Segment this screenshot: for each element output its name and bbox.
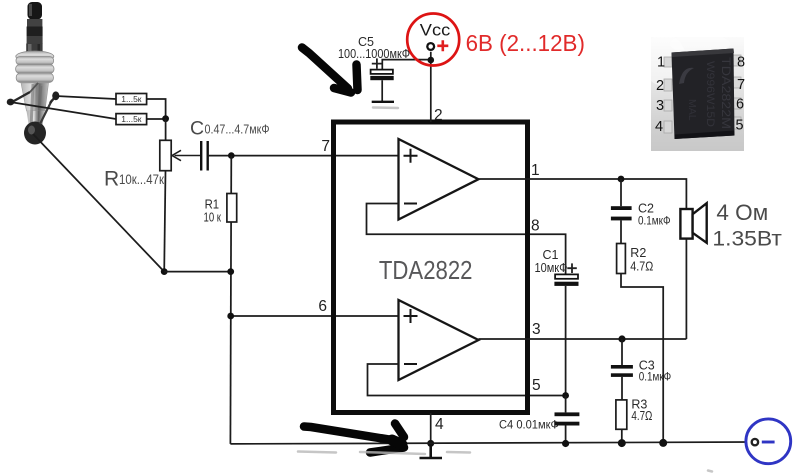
IC chip photo (DIP-8) [642,34,745,151]
ground rail [230,442,751,444]
svg-text:5: 5 [532,377,541,394]
left lug contact [13,92,30,102]
speaker [680,203,706,243]
right lug contact [50,97,56,104]
jack plug photo [7,2,60,145]
svg-text:8: 8 [737,55,745,71]
ST logo [679,68,694,84]
svg-text:4: 4 [435,416,444,433]
svg-text:1: 1 [657,55,665,71]
svg-text:6: 6 [318,298,327,315]
wire pin 2 to Vcc node [430,52,432,122]
plug tip [28,2,43,20]
hand-drawn arrow (bottom) [304,424,404,453]
svg-text:10мкФ: 10мкФ [535,261,568,275]
wire junction to potentiometer [165,119,167,141]
capacitor C2 [611,202,671,228]
capacitor C3 [611,359,671,384]
svg-text:TDA2822M: TDA2822M [719,57,733,129]
potentiometer R 10k...47k [104,140,201,190]
wire pin 1 output to speaker top [479,179,687,209]
capacitor C 0.47...4.7uF [190,118,270,171]
resistor R2 [617,244,654,274]
wire A1 feedback to pin 8 [367,204,566,275]
svg-text:R2: R2 [630,246,646,260]
wire pin 6 [231,315,399,317]
svg-text:2: 2 [656,78,664,94]
Vcc terminal symbol [407,14,459,66]
svg-text:4: 4 [655,119,663,135]
output terminal (blue) [746,419,791,464]
node junction A (pot/jack ground) [161,268,168,275]
svg-text:1: 1 [531,162,540,179]
svg-text:10к...47к: 10к...47к [119,172,164,187]
chip pins left [664,57,672,133]
wire pin5 to C4 [565,396,567,413]
wire R1 column down to ground rail [229,156,232,444]
wire pin 3 output [479,338,687,340]
resistor 1...5k (top) [116,94,166,119]
op-amp A1 (top) [399,139,479,220]
wire A2 feedback to pin 5 [368,364,566,396]
svg-text:7: 7 [737,77,745,93]
wire pot bottom to ground junction A [164,171,165,272]
svg-text:3: 3 [656,98,664,114]
svg-text:3: 3 [532,321,541,338]
svg-text:MAL: MAL [686,99,698,121]
svg-text:7: 7 [321,138,330,155]
node R2-return ground [659,439,667,447]
node C4 ground [562,440,569,447]
wire R3 to ground rail [621,429,623,443]
svg-text:W996W15D: W996W15D [704,61,716,127]
svg-text:1...5к: 1...5к [121,94,142,104]
svg-text:0.47...4.7мкФ: 0.47...4.7мкФ [205,122,270,137]
node pin4 ground [427,440,434,447]
wire Vcc node to C5 [382,60,431,70]
capacitor C1 [535,248,579,396]
node pin1 / C2 tap [618,176,625,183]
wire node to C2 [620,179,622,206]
wire junction A to R1 column [164,271,231,273]
svg-text:0.1мкФ: 0.1мкФ [639,370,672,384]
resistor R3 [616,398,653,430]
node pin5 junction [562,392,569,399]
node junction of both resistors [162,115,169,122]
hand-drawn arrow (top) [302,48,358,93]
svg-text:10 к: 10 к [204,211,222,225]
wire jack tip to resistor [56,96,116,99]
chip body [672,49,735,140]
capacitor C5 [338,35,410,101]
svg-text:6: 6 [736,97,744,113]
node Vcc junction [428,57,435,64]
svg-text:0.1мкФ: 0.1мкФ [638,214,671,228]
node junction A right [227,268,234,275]
resistor 1...5k (bottom) [116,114,166,125]
capacitor C4 [499,412,579,443]
svg-text:4 Ом: 4 Ом [716,200,768,225]
svg-text:TDA2822: TDA2822 [379,255,473,285]
svg-text:100...1000мкФ: 100...1000мкФ [338,47,410,61]
svg-text:2: 2 [434,107,443,124]
wire C3 column [621,339,623,365]
smudge marks [298,108,712,472]
svg-text:1...5к: 1...5к [121,114,142,124]
plug body [21,83,49,111]
svg-text:8: 8 [531,218,540,235]
svg-text:6В (2...12В): 6В (2...12В) [466,30,585,56]
chip pins right [733,55,741,129]
solder lug blob [24,122,46,145]
node R3 ground [618,439,626,447]
svg-text:4.7Ω: 4.7Ω [631,409,652,423]
pin number labels [655,55,745,136]
wire speaker bottom to pin 3 line [685,239,687,339]
node pin6 tap [227,313,234,320]
wire C2 to R2 [620,220,622,243]
op-amp A2 (bottom) [399,300,479,380]
wire R2 return to ground rail [621,274,663,443]
svg-text:C: C [190,118,204,140]
IC box TDA2822 [334,122,528,413]
svg-text:Vcc: Vcc [420,21,450,40]
svg-text:R: R [104,168,119,191]
plug shaft [26,44,42,56]
node pin3 / C3 tap [618,335,625,342]
svg-text:C1: C1 [543,248,559,262]
wire jack ring to resistor [10,102,116,119]
node R1 top junction [228,152,235,159]
resistor R1 10k [204,194,237,225]
ground bar under C5 [372,101,394,103]
wire C to pin 7 [208,155,399,157]
wire pin 4 to ground rail [430,413,432,443]
collar discs [16,51,54,62]
wire jack sleeve diagonal to ground junction [33,134,164,272]
svg-text:1.35Вт: 1.35Вт [712,226,782,250]
svg-text:5: 5 [735,118,743,134]
wire C3 to R3 [621,377,623,400]
plug insulator rings [27,19,42,27]
svg-text:4.7Ω: 4.7Ω [630,260,653,274]
svg-text:C4 0.01мкФ: C4 0.01мкФ [499,418,559,432]
ground symbol under pin 4 [420,443,443,458]
